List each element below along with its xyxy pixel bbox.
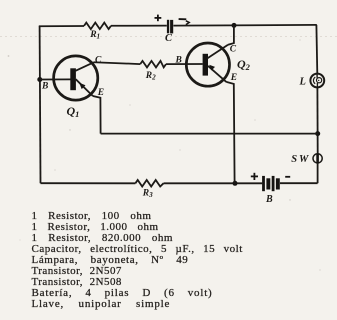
node junction dot on top rail [232,23,237,28]
wire left vertical rail [39,26,42,183]
label R3 [142,188,153,199]
wire bottom rail middle segment (battery to R3) [164,182,263,184]
node junction dot right rail [315,131,320,136]
node junction dot Q1 base branch [37,77,42,82]
svg-text:B: B [175,55,182,65]
wire Q1 collector to R2 [94,62,140,64]
svg-text:C: C [165,33,173,44]
wire right vertical rail (bottom) [317,163,319,183]
resistor R2 [140,61,166,68]
wire right vertical rail (middle, lamp to switch) [316,87,318,154]
svg-text:B: B [41,82,48,92]
paper speckles (decorative) [8,39,321,270]
wire Q1 emitter horizontal to right rail [101,133,318,135]
wire top rail middle segment [111,25,167,27]
svg-text:R2: R2 [145,71,156,82]
wire bottom rail left segment [41,182,136,184]
battery B cells [262,176,280,191]
svg-text:C: C [230,44,237,54]
svg-text:SW: SW [291,154,310,165]
label C (capacitor) [165,33,173,44]
lamp L [310,74,324,88]
battery minus sign [285,176,290,178]
wire Q1 base lead [40,78,71,80]
wire right vertical rail (top, to lamp) [315,25,318,74]
wire Q2 emitter down to battery junction [226,82,234,183]
wire R2 to Q2 base [166,63,203,65]
faint print artifact line (decorative) [0,36,337,38]
svg-text:E: E [230,73,237,83]
label Q2 [237,57,251,72]
switch SW [313,154,322,164]
svg-text:Q2: Q2 [237,57,251,72]
transistor Q1 [54,56,98,100]
svg-text:Q1: Q1 [67,104,80,119]
wire Q1 emitter down [93,96,101,134]
capacitor C plus polarity sign [155,15,162,22]
label R2 [145,71,156,82]
node junction dot at battery left [233,181,238,186]
label SW [291,154,310,165]
label C (Q1 collector) [95,56,102,66]
parts list text [32,211,243,310]
battery plus sign [251,173,258,180]
wire bottom rail right segment (corner to battery) [280,182,318,184]
capacitor C polarity arrow [179,19,190,25]
label E (Q1 emitter) [97,88,104,98]
resistor R1 [84,23,111,30]
resistor R3 [135,180,163,187]
label Q1 [67,104,80,119]
label R1 [89,30,100,41]
label C (Q2 collector) [230,44,237,54]
svg-text:R1: R1 [89,30,100,41]
label E (Q2 emitter) [230,73,237,83]
capacitor C (electrolytic) plates [167,20,173,34]
svg-text:L: L [299,76,306,87]
label L [299,76,306,87]
label B (Q1 base) [41,82,48,92]
label B (battery) [265,194,273,205]
label B (Q2 base) [175,55,182,65]
svg-text:C: C [95,56,102,66]
svg-text:R3: R3 [142,188,153,199]
wire Q2 collector up to top rail [228,25,234,44]
transistor Q2 [186,43,229,86]
wire top rail right segment [173,24,316,27]
svg-text:B: B [265,194,273,205]
wire top rail left segment [39,25,84,27]
